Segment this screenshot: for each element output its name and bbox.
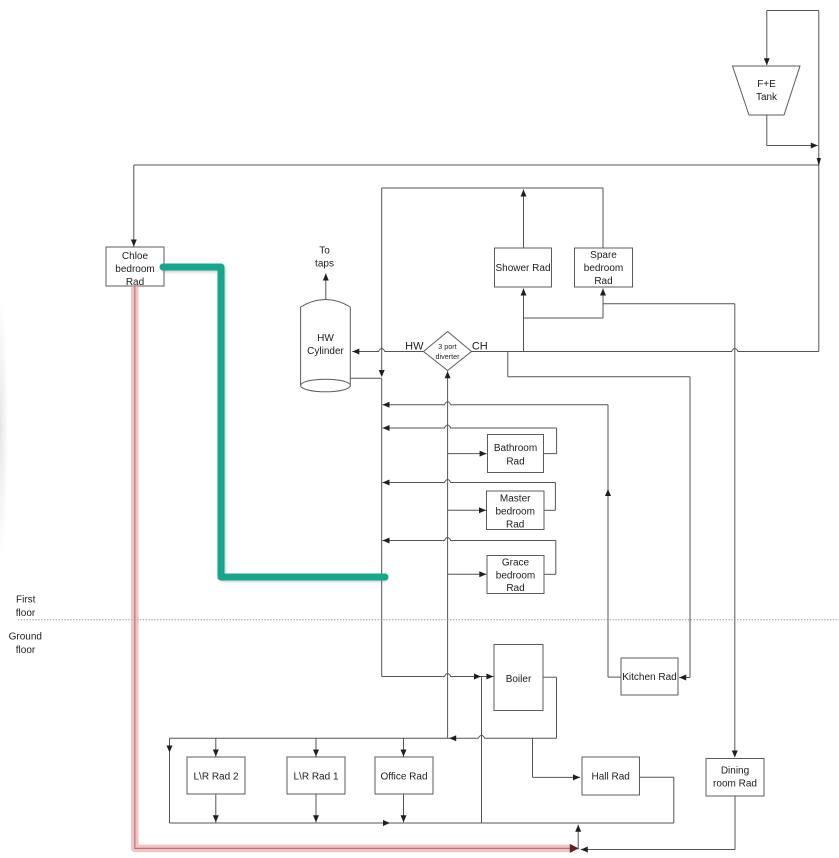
svg-text:Master: Master <box>500 494 531 505</box>
svg-text:Rad: Rad <box>506 519 524 530</box>
svg-text:floor: floor <box>16 645 36 656</box>
svg-text:Office Rad: Office Rad <box>380 772 427 783</box>
svg-text:To: To <box>319 246 330 257</box>
svg-text:Shower Rad: Shower Rad <box>495 263 550 274</box>
svg-text:bedroom: bedroom <box>495 506 534 517</box>
svg-text:bedroom: bedroom <box>496 570 535 581</box>
svg-text:L\R Rad 1: L\R Rad 1 <box>293 772 338 783</box>
svg-text:room Rad: room Rad <box>713 779 757 790</box>
svg-text:HW: HW <box>317 333 334 344</box>
svg-text:3 port: 3 port <box>438 342 456 351</box>
svg-text:Boiler: Boiler <box>506 674 532 685</box>
svg-text:floor: floor <box>16 608 36 619</box>
svg-text:Cylinder: Cylinder <box>307 346 344 357</box>
svg-text:Rad: Rad <box>506 583 524 594</box>
svg-text:Spare: Spare <box>590 250 617 261</box>
svg-text:bedroom: bedroom <box>115 264 154 275</box>
svg-text:F+E: F+E <box>757 79 776 90</box>
svg-text:Hall Rad: Hall Rad <box>592 772 630 783</box>
svg-text:Rad: Rad <box>594 276 612 287</box>
svg-text:Kitchen Rad: Kitchen Rad <box>622 672 676 683</box>
svg-text:Grace: Grace <box>502 557 530 568</box>
svg-text:L\R Rad 2: L\R Rad 2 <box>193 772 238 783</box>
svg-text:Rad: Rad <box>506 456 524 467</box>
svg-text:Bathroom: Bathroom <box>494 443 537 454</box>
svg-text:Ground: Ground <box>9 632 42 643</box>
svg-text:Tank: Tank <box>756 92 778 103</box>
svg-text:diverter: diverter <box>436 352 461 361</box>
svg-text:Chloe: Chloe <box>122 251 149 262</box>
svg-text:First: First <box>16 595 36 606</box>
svg-text:bedroom: bedroom <box>584 263 623 274</box>
svg-text:Dining: Dining <box>721 766 749 777</box>
svg-text:Rad: Rad <box>126 277 144 288</box>
svg-text:HW: HW <box>405 341 424 353</box>
svg-text:CH: CH <box>472 341 488 353</box>
svg-text:taps: taps <box>315 259 334 270</box>
